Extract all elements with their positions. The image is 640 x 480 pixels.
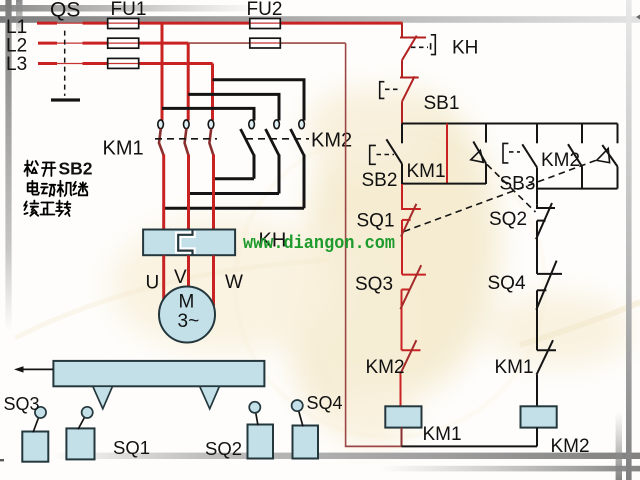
wire L3 [38, 62, 57, 65]
wire L1 [37, 22, 57, 25]
motor M 3~ [159, 287, 215, 343]
svg-text:SB3: SB3 [500, 174, 536, 195]
svg-text:SQ2: SQ2 [205, 438, 242, 459]
limit switch unit SQ1 [66, 428, 94, 459]
sub-rail left group [402, 183, 486, 185]
sub-rail right group [537, 188, 618, 190]
svg-text:L3: L3 [6, 54, 27, 75]
interlock contact KM1 (NC) [537, 340, 557, 406]
svg-text:KM2: KM2 [551, 436, 590, 457]
svg-text:SB1: SB1 [424, 93, 460, 114]
control left return wire [345, 43, 347, 446]
contact SQ1 NO (with actuator triangle) [617, 124, 619, 144]
svg-text:FU2: FU2 [247, 0, 283, 20]
arrow (travel direction) [21, 368, 53, 370]
limit switch SQ1 (NC closed, red) [402, 184, 421, 275]
pushbutton SB3 (NO) [536, 124, 538, 144]
svg-text:KM1: KM1 [495, 357, 534, 378]
svg-text:SQ4: SQ4 [307, 393, 343, 413]
bumper dog 1 [93, 386, 113, 409]
bottom return rail [345, 445, 402, 447]
svg-text:KM1: KM1 [407, 161, 446, 182]
wire phase columns to KM1 contacts [161, 23, 164, 120]
svg-text:KM2: KM2 [366, 357, 405, 378]
limit switch unit SQ3 [22, 432, 48, 462]
limit switch unit SQ2 [248, 425, 274, 459]
svg-text:V: V [174, 267, 187, 288]
svg-text:3~: 3~ [178, 311, 200, 332]
svg-text:SB2: SB2 [59, 159, 93, 179]
svg-text:KH: KH [452, 38, 478, 59]
svg-text:KM1: KM1 [423, 424, 462, 445]
svg-text:W: W [225, 272, 243, 293]
crossover output wires [164, 179, 304, 209]
svg-text:SQ4: SQ4 [488, 273, 526, 294]
svg-text:U: U [146, 273, 160, 294]
svg-text:QS: QS [50, 0, 80, 22]
svg-text:www.diangon.com: www.diangon.com [243, 234, 395, 254]
limit switch unit SQ4 [293, 426, 319, 459]
coil KM1 [385, 406, 421, 427]
wires to motor [164, 256, 214, 307]
svg-text:SQ2: SQ2 [489, 209, 527, 230]
thermal relay KH heater box [143, 230, 235, 256]
watermark wash [110, 88, 632, 445]
svg-text:SQ3: SQ3 [4, 394, 40, 414]
pushbutton SB2 (NO) [401, 124, 403, 144]
svg-text:M: M [179, 292, 195, 313]
svg-text:SQ1: SQ1 [357, 211, 395, 232]
limit switch SQ4 (NC) [536, 261, 562, 351]
wires to KM2 contacts (taps) [162, 80, 304, 121]
bumper dog 2 [200, 386, 220, 409]
pushbutton SB1 (NC, closed red) [400, 76, 419, 124]
interlock contact KM2 (NC closed, red) [401, 350, 421, 406]
svg-text:SB2: SB2 [362, 170, 398, 191]
coil KM2 [521, 406, 557, 427]
fuse element wires [109, 23, 280, 63]
wire L2 [38, 42, 57, 45]
svg-text:SQ3: SQ3 [355, 274, 393, 295]
svg-text:KM1: KM1 [103, 138, 144, 160]
frame bars [0, 16, 640, 23]
svg-text:SQ1: SQ1 [113, 437, 150, 458]
wire columns to thermal element [164, 155, 214, 231]
linkage dashed SQ1 [404, 160, 596, 231]
limit switch SQ2 (NC) [536, 203, 555, 274]
svg-text:FU1: FU1 [111, 0, 147, 20]
linkage dashed SQ2 [487, 165, 536, 213]
thermal contact KH (NC, closed red) [400, 23, 426, 77]
caption: 松开SB2 电动机继 续正转 (hand-drawn strokes) [24, 161, 55, 177]
top rail of control ladder [402, 123, 618, 125]
worktable [53, 361, 264, 386]
contact SQ2 NO (with actuator triangle) [485, 124, 487, 143]
limit switch SQ3 (NC closed, red) [402, 275, 426, 351]
